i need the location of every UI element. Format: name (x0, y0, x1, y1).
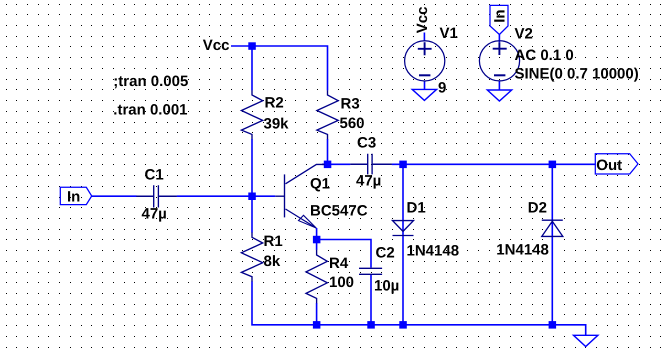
svg-text:9: 9 (438, 80, 446, 97)
svg-text:Vcc: Vcc (203, 37, 230, 54)
svg-text:AC 0.1 0: AC 0.1 0 (515, 47, 574, 64)
svg-text:;tran 0.005: ;tran 0.005 (113, 73, 188, 90)
svg-text:39k: 39k (264, 116, 290, 133)
svg-text:V1: V1 (440, 25, 458, 42)
svg-text:100: 100 (329, 274, 354, 291)
svg-text:BC547C: BC547C (310, 202, 368, 219)
svg-text:1N4148: 1N4148 (407, 242, 460, 259)
svg-text:47µ: 47µ (356, 172, 381, 189)
svg-text:R2: R2 (265, 95, 284, 112)
svg-text:47µ: 47µ (142, 206, 167, 223)
svg-text:R1: R1 (264, 233, 283, 250)
svg-text:Q1: Q1 (310, 176, 330, 193)
svg-text:C1: C1 (145, 166, 164, 183)
svg-text:R4: R4 (329, 255, 349, 272)
svg-text:Vcc: Vcc (414, 6, 431, 33)
svg-text:R3: R3 (341, 96, 360, 113)
svg-text:Out: Out (596, 157, 622, 174)
svg-text:C2: C2 (376, 245, 395, 262)
svg-text:In: In (67, 189, 80, 206)
svg-text:10µ: 10µ (374, 278, 399, 295)
svg-text:560: 560 (340, 115, 365, 132)
svg-text:1N4148: 1N4148 (496, 242, 549, 259)
svg-text:.tran 0.001: .tran 0.001 (113, 102, 187, 119)
svg-text:C3: C3 (357, 135, 376, 152)
svg-text:8k: 8k (264, 253, 281, 270)
svg-text:SINE(0 0.7 10000): SINE(0 0.7 10000) (515, 66, 639, 83)
svg-text:In: In (492, 9, 509, 22)
svg-text:D1: D1 (407, 199, 426, 216)
svg-text:D2: D2 (528, 199, 547, 216)
svg-text:V2: V2 (515, 26, 533, 43)
